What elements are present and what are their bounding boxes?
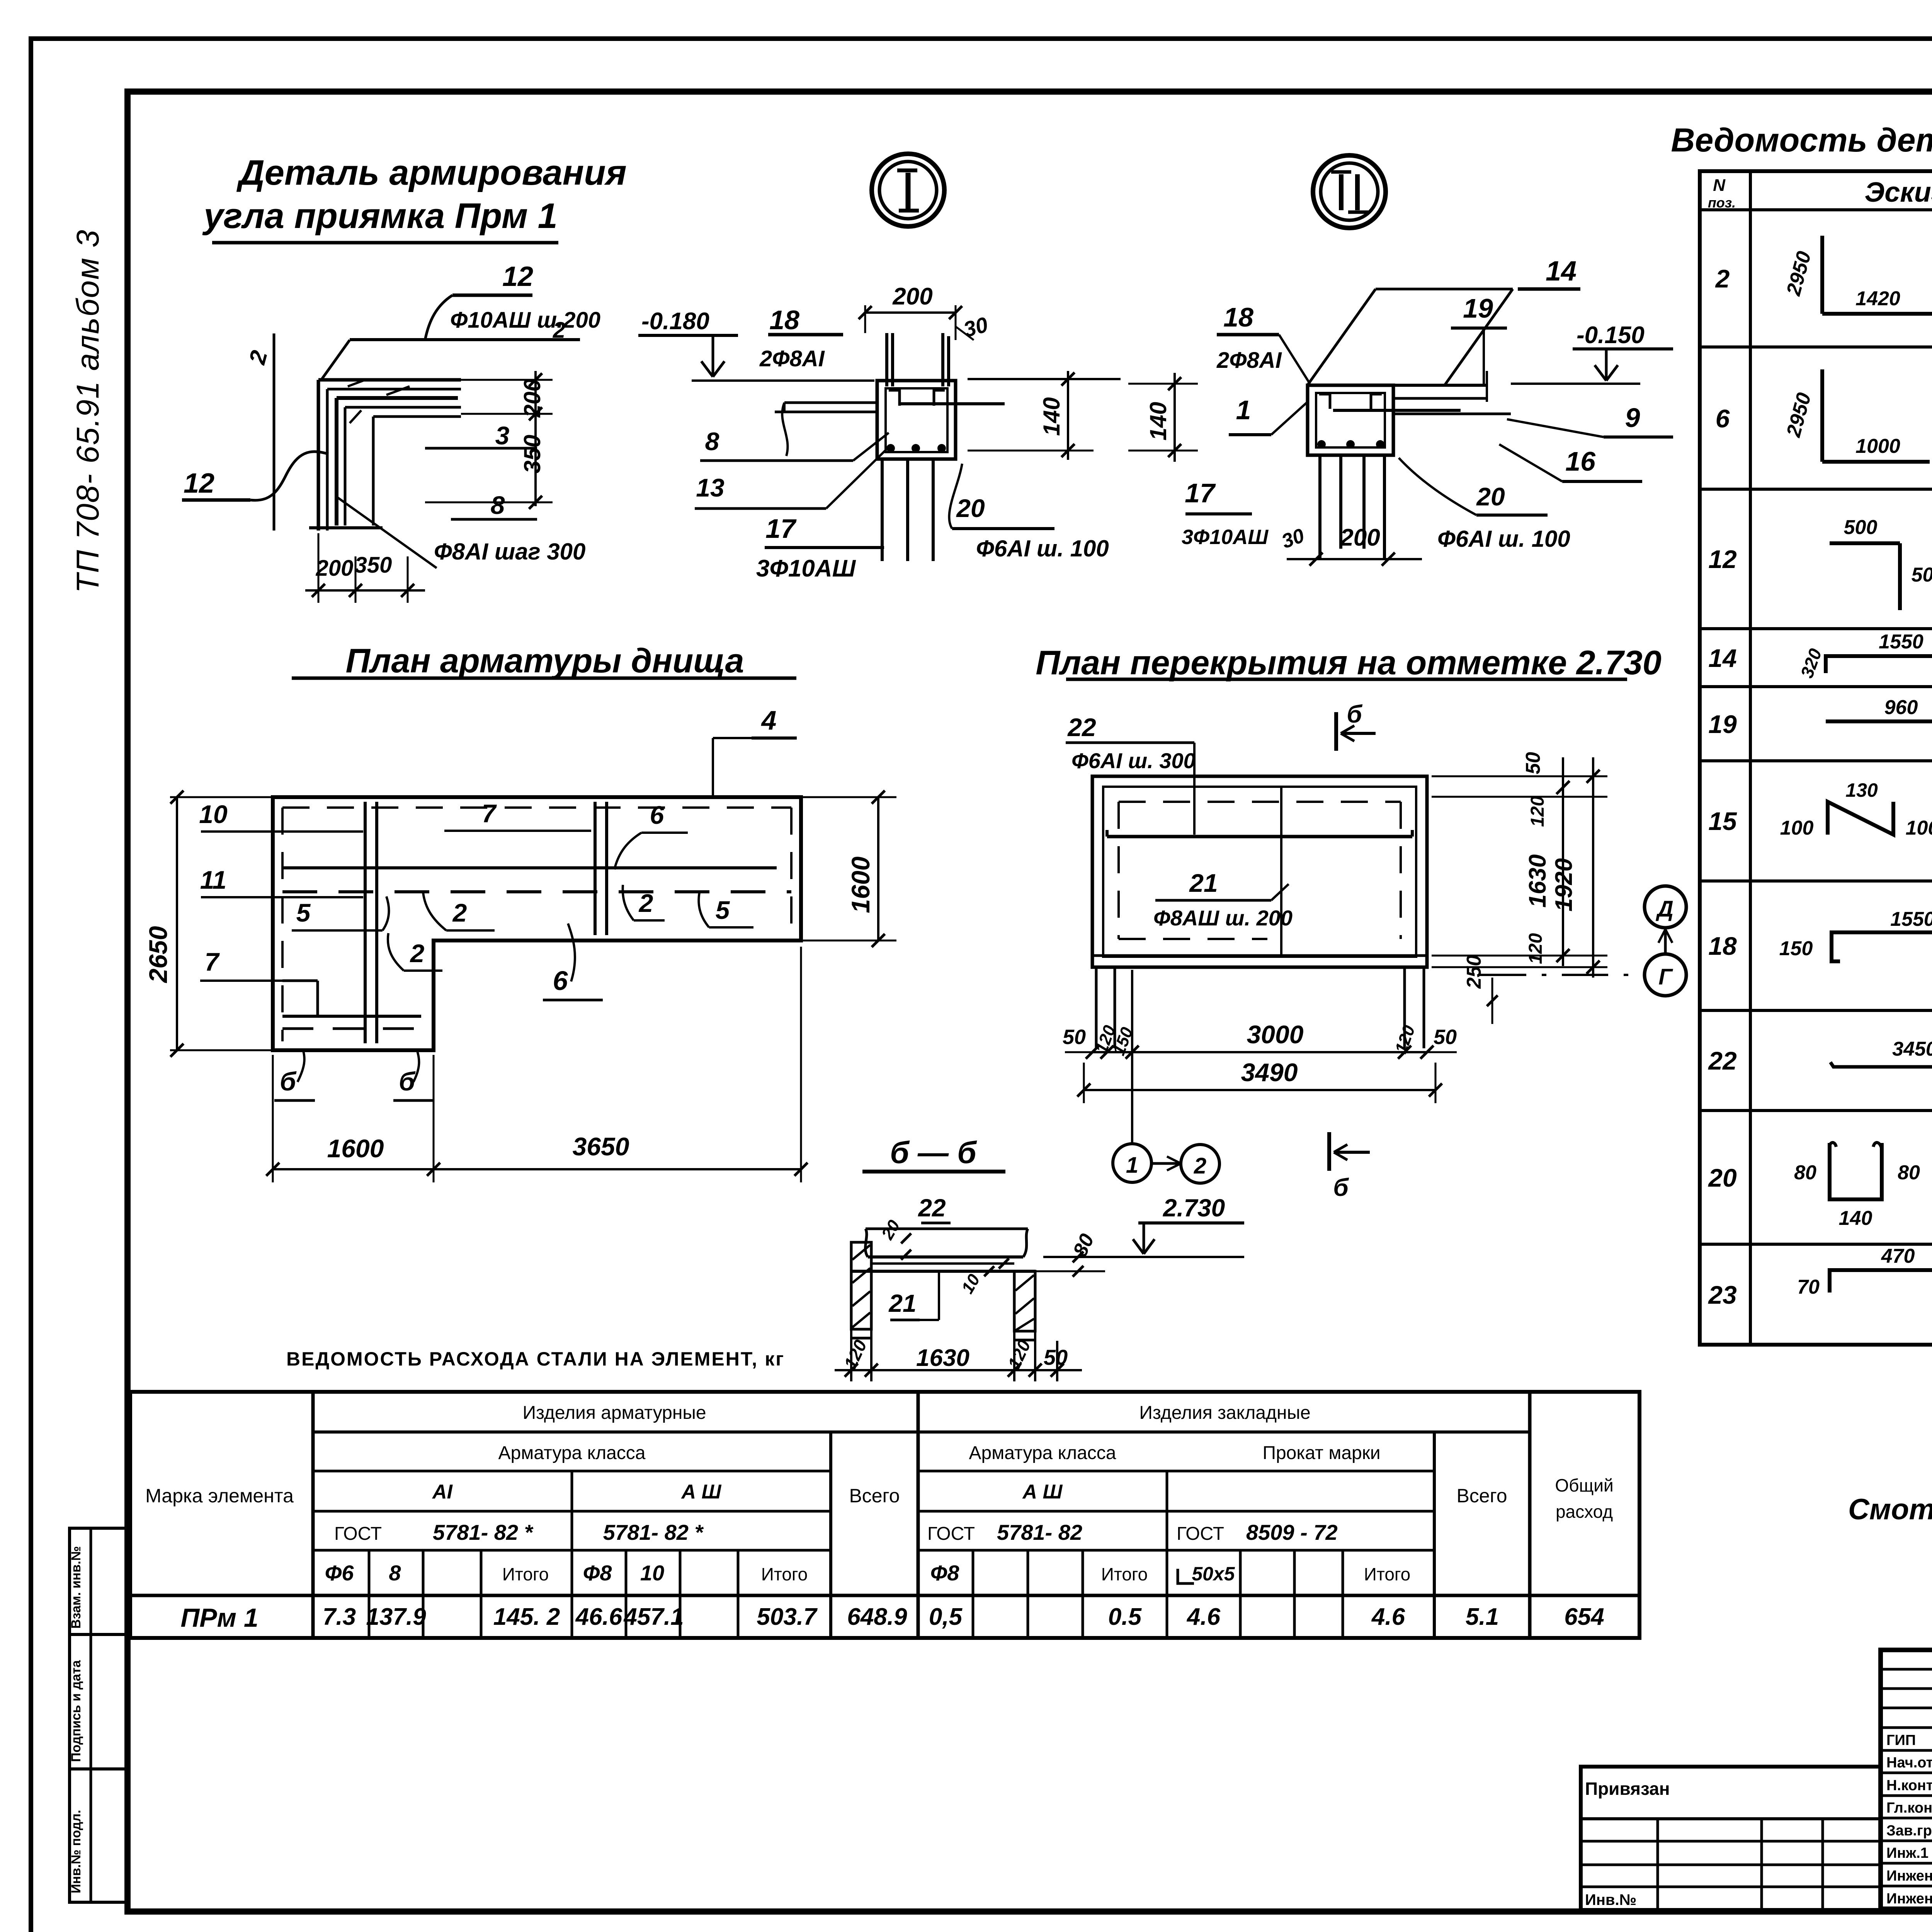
svg-text:1630: 1630 bbox=[916, 1345, 969, 1371]
detail-1 wall foot line bbox=[309, 526, 383, 529]
svg-text:N: N bbox=[1713, 176, 1726, 195]
detail-II leader squiggle 20 bbox=[1399, 458, 1476, 515]
svg-text:Итого: Итого bbox=[502, 1564, 549, 1584]
svg-text:4.6: 4.6 bbox=[1186, 1604, 1221, 1630]
svg-text:9: 9 bbox=[1625, 403, 1640, 433]
leader curve 12 left bbox=[250, 452, 328, 500]
svg-text:15: 15 bbox=[1708, 807, 1737, 835]
svg-text:б: б bbox=[1333, 1173, 1349, 1201]
plan-2 right dims bbox=[1432, 776, 1607, 777]
svg-text:10: 10 bbox=[640, 1561, 664, 1585]
svg-text:654: 654 bbox=[1564, 1604, 1604, 1630]
sketch table grid bbox=[1700, 171, 1932, 1345]
svg-text:13: 13 bbox=[696, 473, 724, 502]
b-b right wall hatched bbox=[1014, 1271, 1035, 1331]
svg-text:137.9: 137.9 bbox=[366, 1604, 426, 1630]
svg-text:140: 140 bbox=[1145, 402, 1171, 440]
b-b slab top bbox=[866, 1228, 1028, 1230]
svg-text:б — б: б — б bbox=[890, 1135, 977, 1170]
sketch row 6 bbox=[1820, 369, 1824, 462]
b-b break line right bbox=[1023, 1229, 1028, 1257]
svg-text:ПРм 1: ПРм 1 bbox=[180, 1603, 258, 1633]
plan-2 node circle Г bbox=[1645, 954, 1686, 996]
svg-text:3490: 3490 bbox=[1241, 1058, 1298, 1087]
svg-text:3Ф10АШ: 3Ф10АШ bbox=[756, 555, 856, 582]
svg-text:46.6: 46.6 bbox=[575, 1604, 622, 1630]
b-b underline bbox=[862, 1170, 1005, 1173]
detail-I column box bbox=[877, 381, 956, 459]
svg-text:2650: 2650 bbox=[144, 926, 172, 983]
svg-text:ВЕДОМОСТЬ РАСХОДА СТАЛИ НА ЭЛЕ: ВЕДОМОСТЬ РАСХОДА СТАЛИ НА ЭЛЕМЕНТ, кг bbox=[286, 1348, 785, 1370]
svg-text:12: 12 bbox=[184, 468, 214, 499]
svg-text:Ф6: Ф6 bbox=[325, 1561, 354, 1585]
sketch row 20 bbox=[1830, 1143, 1882, 1199]
svg-text:А Ш: А Ш bbox=[1022, 1481, 1063, 1503]
plan-2 axis circle 2 bbox=[1181, 1145, 1219, 1183]
svg-text:Инв.№ подл.: Инв.№ подл. bbox=[69, 1810, 83, 1893]
svg-text:Инв.№: Инв.№ bbox=[1585, 1891, 1636, 1908]
svg-text:350: 350 bbox=[519, 435, 545, 473]
svg-text:6: 6 bbox=[1716, 404, 1730, 433]
title block outer bbox=[1881, 1650, 1932, 1909]
svg-text:150: 150 bbox=[1779, 937, 1813, 960]
svg-text:2Ф8АІ: 2Ф8АІ bbox=[1216, 348, 1282, 373]
privyazan box bbox=[1581, 1767, 1881, 1910]
plan-2 title underline bbox=[1066, 678, 1627, 681]
detail-I slab step left of box bbox=[784, 401, 877, 404]
section circle II bbox=[1313, 155, 1386, 228]
detail-1 wall corner outline bbox=[318, 378, 461, 382]
sketch row 2 bbox=[1820, 236, 1824, 314]
svg-text:145. 2: 145. 2 bbox=[493, 1604, 560, 1630]
svg-text:План перекрытия на отметке 2: План перекрытия на отметке 2.730 bbox=[1036, 643, 1662, 682]
detail-1 right dim 200/350 bbox=[534, 371, 537, 506]
svg-text:ГОСТ: ГОСТ bbox=[927, 1524, 975, 1544]
plan-2 axis dash-dot to Г bbox=[1480, 974, 1645, 976]
svg-text:100: 100 bbox=[1780, 817, 1814, 839]
svg-text:23: 23 bbox=[1708, 1281, 1736, 1309]
svg-text:3: 3 bbox=[495, 421, 510, 450]
left margin stamp boxes bbox=[70, 1528, 128, 1634]
svg-text:1550: 1550 bbox=[1879, 631, 1923, 653]
detail-II stirrup hooks bbox=[1319, 394, 1330, 409]
b-b slab inner line bbox=[871, 1262, 1014, 1265]
svg-text:-0.180: -0.180 bbox=[641, 308, 709, 335]
detail-I right dim 140 bbox=[968, 378, 1121, 380]
svg-text:б: б bbox=[1347, 700, 1363, 728]
svg-text:Всего: Всего bbox=[1456, 1485, 1507, 1507]
svg-text:6: 6 bbox=[650, 801, 665, 829]
svg-text:Инж.1 кат: Инж.1 кат bbox=[1886, 1845, 1932, 1861]
svg-text:План арматуры днища: План арматуры днища bbox=[345, 641, 744, 680]
svg-text:12: 12 bbox=[1708, 545, 1737, 573]
svg-text:ГИП: ГИП bbox=[1886, 1732, 1916, 1748]
plan-1 vertical bar pair A bbox=[364, 802, 367, 1043]
svg-text:расход: расход bbox=[1556, 1502, 1613, 1522]
svg-text:Н.контр.: Н.контр. bbox=[1886, 1777, 1932, 1794]
svg-text:Эскиз: Эскиз bbox=[1864, 177, 1932, 208]
svg-text:50: 50 bbox=[1434, 1026, 1457, 1049]
detail-II left dim 140 bbox=[1173, 373, 1176, 462]
svg-text:960: 960 bbox=[1884, 696, 1918, 719]
svg-text:1000: 1000 bbox=[1855, 435, 1900, 457]
svg-text:250: 250 bbox=[1463, 955, 1485, 989]
svg-text:б: б bbox=[280, 1067, 297, 1096]
svg-text:200: 200 bbox=[1340, 524, 1380, 551]
plan-1 dashed bar line bbox=[282, 890, 791, 893]
svg-text:21: 21 bbox=[888, 1289, 916, 1317]
plan-2 section marker б bottom bbox=[1327, 1132, 1331, 1171]
svg-text:0.5: 0.5 bbox=[1108, 1604, 1142, 1630]
svg-text:140: 140 bbox=[1839, 1207, 1872, 1230]
plan-2 node circle Д bbox=[1645, 886, 1686, 928]
plan-1 outline bbox=[273, 797, 801, 1050]
detail-I bars below bbox=[881, 459, 884, 561]
svg-text:ГОСТ: ГОСТ bbox=[1177, 1524, 1224, 1544]
svg-text:50: 50 bbox=[1044, 1345, 1068, 1369]
svg-text:3Ф10АШ: 3Ф10АШ bbox=[1182, 526, 1269, 549]
svg-text:470: 470 bbox=[1881, 1245, 1915, 1267]
svg-text:0,5: 0,5 bbox=[929, 1604, 963, 1630]
svg-text:3450: 3450 bbox=[1892, 1038, 1932, 1060]
svg-text:648.9: 648.9 bbox=[847, 1604, 907, 1630]
svg-text:Нач.отд: Нач.отд bbox=[1886, 1755, 1932, 1771]
plan-1 title underline bbox=[292, 677, 796, 680]
svg-text:2: 2 bbox=[1194, 1153, 1206, 1179]
detail-II parallelogram top bbox=[1376, 288, 1513, 291]
b-b wall foot tick left bbox=[851, 1337, 871, 1340]
svg-text:1: 1 bbox=[1126, 1153, 1138, 1178]
svg-text:Всего: Всего bbox=[849, 1485, 900, 1507]
svg-text:5781- 82: 5781- 82 bbox=[997, 1520, 1082, 1544]
svg-text:А Ш: А Ш bbox=[681, 1481, 722, 1503]
detail-1 hatch marks bbox=[348, 381, 363, 386]
svg-text:8: 8 bbox=[705, 427, 719, 456]
svg-text:140: 140 bbox=[1039, 397, 1065, 436]
sketch row 19 bbox=[1826, 719, 1932, 723]
svg-text:Деталь армирования: Деталь армирования bbox=[236, 153, 626, 192]
svg-text:Ф8АІ шаг 300: Ф8АІ шаг 300 bbox=[434, 539, 585, 565]
svg-text:500: 500 bbox=[1844, 516, 1878, 539]
level line to detail-I bbox=[692, 379, 874, 382]
b-b bottom dims bbox=[850, 1329, 852, 1381]
detail-I leader squiggle 20 bbox=[949, 464, 962, 529]
svg-text:Смотреть совместно с лис: Смотреть совместно с листом 36 bbox=[1848, 1493, 1932, 1526]
detail-1 leader 2 line bbox=[321, 340, 350, 381]
svg-text:4: 4 bbox=[761, 705, 777, 735]
plan-2 slab outline bbox=[1092, 776, 1427, 967]
svg-text:Инженер: Инженер bbox=[1886, 1891, 1932, 1907]
detail-I stirrup hooks bbox=[889, 390, 900, 406]
svg-text:2Ф8АІ: 2Ф8АІ bbox=[759, 346, 825, 371]
plan-2 axis circle 1 bbox=[1113, 1144, 1151, 1182]
detail-1 diagonal leader bbox=[336, 497, 437, 568]
svg-text:-0.150: -0.150 bbox=[1577, 322, 1645, 349]
detail-II horizontal bar bbox=[1333, 409, 1461, 412]
detail-1 axis line 2 bbox=[273, 333, 276, 531]
svg-text:22: 22 bbox=[1708, 1046, 1737, 1075]
svg-text:18: 18 bbox=[1223, 302, 1253, 332]
svg-text:2: 2 bbox=[638, 889, 653, 917]
svg-text:Взам. инв.№: Взам. инв.№ bbox=[69, 1546, 83, 1629]
svg-text:20: 20 bbox=[1708, 1163, 1737, 1192]
svg-text:2: 2 bbox=[410, 939, 425, 968]
svg-text:Прокат марки: Прокат марки bbox=[1262, 1443, 1380, 1463]
svg-text:20: 20 bbox=[956, 494, 985, 522]
b-b wall foot tick right bbox=[1014, 1339, 1035, 1342]
detail-I protruding bars bbox=[885, 333, 888, 386]
svg-text:ГОСТ: ГОСТ bbox=[334, 1524, 382, 1544]
svg-text:АІ: АІ bbox=[432, 1481, 453, 1503]
plan-1 bottom-left bars bbox=[282, 980, 318, 982]
svg-text:5: 5 bbox=[716, 896, 730, 924]
svg-text:угла приямка Прм 1: угла приямка Прм 1 bbox=[202, 196, 557, 236]
plan-1 dim 1600 right bbox=[877, 797, 879, 940]
plan-2 horizontal bar with hooks bbox=[1107, 835, 1412, 838]
svg-text:1920: 1920 bbox=[1551, 858, 1577, 912]
title block left rows bbox=[1881, 1668, 1932, 1671]
svg-text:4.6: 4.6 bbox=[1371, 1604, 1405, 1630]
svg-text:200: 200 bbox=[519, 379, 545, 418]
svg-text:Г: Г bbox=[1658, 964, 1673, 990]
svg-text:Д: Д bbox=[1655, 896, 1673, 922]
section circle I bbox=[872, 154, 944, 226]
detail-II level line bbox=[1511, 383, 1640, 385]
plan-1 bottom dim line bbox=[273, 1168, 801, 1170]
svg-text:11: 11 bbox=[200, 866, 227, 894]
svg-text:200: 200 bbox=[892, 283, 932, 310]
svg-text:Ф6АІ ш. 100: Ф6АІ ш. 100 bbox=[1437, 526, 1570, 552]
svg-text:Арматура класса: Арматура класса bbox=[498, 1443, 646, 1463]
svg-text:457.1: 457.1 bbox=[623, 1604, 684, 1630]
svg-text:20: 20 bbox=[1476, 482, 1505, 511]
svg-text:2.730: 2.730 bbox=[1163, 1194, 1225, 1222]
svg-text:1550: 1550 bbox=[1890, 908, 1932, 930]
svg-text:Ф8АШ ш. 200: Ф8АШ ш. 200 bbox=[1153, 906, 1293, 930]
svg-text:8509 - 72: 8509 - 72 bbox=[1246, 1520, 1338, 1544]
plan-2 center vertical bar bbox=[1280, 787, 1282, 957]
svg-text:12: 12 bbox=[502, 261, 533, 292]
svg-text:8: 8 bbox=[389, 1561, 401, 1585]
svg-text:19: 19 bbox=[1463, 293, 1493, 323]
plan-2 bottom band line bbox=[1092, 954, 1427, 957]
sketch row 14 bbox=[1826, 656, 1932, 673]
svg-text:10: 10 bbox=[199, 800, 228, 828]
svg-text:80: 80 bbox=[1898, 1162, 1920, 1184]
svg-text:22: 22 bbox=[918, 1194, 946, 1222]
svg-text:5781- 82 *: 5781- 82 * bbox=[433, 1520, 534, 1544]
detail-II bar dots bbox=[1317, 440, 1326, 449]
svg-text:50: 50 bbox=[1063, 1026, 1086, 1049]
svg-text:18: 18 bbox=[1708, 932, 1737, 960]
b-b break line left bbox=[866, 1229, 868, 1257]
svg-text:5: 5 bbox=[296, 898, 311, 927]
steel table grid bbox=[130, 1392, 1639, 1638]
svg-text:1: 1 bbox=[1236, 395, 1251, 425]
sketch row 23 bbox=[1830, 1270, 1932, 1293]
svg-text:Ф6АІ ш. 100: Ф6АІ ш. 100 bbox=[976, 536, 1109, 561]
detail-II slab lines right bbox=[1393, 384, 1487, 387]
detail-I bar dots bbox=[886, 444, 895, 452]
svg-text:3650: 3650 bbox=[573, 1132, 629, 1161]
plan-2 dashed contour bbox=[1119, 801, 1401, 803]
svg-text:350: 350 bbox=[355, 553, 392, 578]
svg-text:503.7: 503.7 bbox=[757, 1604, 818, 1630]
plan-1 vertical bar pair B bbox=[594, 802, 597, 935]
svg-text:22: 22 bbox=[1067, 713, 1096, 742]
svg-text:21: 21 bbox=[1189, 869, 1218, 897]
svg-text:19: 19 bbox=[1708, 710, 1737, 738]
svg-text:8: 8 bbox=[491, 491, 505, 519]
sketch row 18 bbox=[1832, 932, 1932, 961]
plan-2 dim 3490 bbox=[1084, 1089, 1435, 1091]
svg-text:1420: 1420 bbox=[1855, 287, 1900, 310]
plan-1 horizontal bar bbox=[282, 866, 777, 869]
svg-text:7: 7 bbox=[482, 799, 497, 828]
svg-text:поз.: поз. bbox=[1708, 195, 1736, 211]
svg-text:16: 16 bbox=[1565, 446, 1596, 476]
svg-text:2: 2 bbox=[1715, 264, 1730, 293]
svg-text:50: 50 bbox=[1522, 752, 1544, 774]
svg-text:Инженер: Инженер bbox=[1886, 1868, 1932, 1884]
svg-text:Зав.гр.: Зав.гр. bbox=[1886, 1823, 1932, 1839]
svg-text:Подпись и дата: Подпись и дата bbox=[69, 1660, 83, 1762]
svg-text:130: 130 bbox=[1845, 779, 1878, 801]
svg-text:50х5: 50х5 bbox=[1192, 1563, 1235, 1585]
svg-text:7.3: 7.3 bbox=[323, 1604, 356, 1630]
svg-text:1600: 1600 bbox=[846, 856, 875, 913]
b-b slab bbox=[868, 1255, 1023, 1259]
svg-text:1630: 1630 bbox=[1524, 854, 1551, 908]
svg-text:Арматура класса: Арматура класса bbox=[969, 1443, 1116, 1463]
svg-text:Ф8: Ф8 bbox=[930, 1561, 960, 1585]
svg-text:18: 18 bbox=[769, 305, 799, 335]
svg-text:Итого: Итого bbox=[761, 1564, 808, 1584]
detail-II bars below bbox=[1318, 455, 1321, 558]
svg-text:Итого: Итого bbox=[1364, 1564, 1411, 1584]
plan-1 inner dashed contour bbox=[282, 806, 791, 809]
svg-text:120: 120 bbox=[1527, 796, 1548, 827]
svg-text:17: 17 bbox=[1185, 478, 1216, 508]
sketch row 12 bbox=[1830, 541, 1900, 545]
svg-text:2: 2 bbox=[452, 898, 467, 927]
svg-text:Изделия закладные: Изделия закладные bbox=[1139, 1403, 1310, 1423]
plan-2 axis-1 line bbox=[1131, 970, 1133, 1143]
plan-2 wall projections below bbox=[1095, 967, 1098, 1048]
svg-text:5781- 82 *: 5781- 82 * bbox=[603, 1520, 704, 1544]
detail-I horizontal bar bbox=[900, 402, 1005, 405]
svg-text:Ф10АШ ш.200: Ф10АШ ш.200 bbox=[450, 308, 600, 333]
svg-text:6: 6 bbox=[553, 966, 568, 996]
svg-text:500: 500 bbox=[1912, 564, 1932, 586]
svg-text:Изделия арматурные: Изделия арматурные bbox=[522, 1403, 706, 1423]
plan-1 dim 2650 left bbox=[176, 797, 178, 1050]
svg-text:70: 70 bbox=[1797, 1276, 1820, 1298]
svg-text:Марка элемента: Марка элемента bbox=[145, 1485, 294, 1507]
svg-text:Ф6АІ ш. 300: Ф6АІ ш. 300 bbox=[1071, 748, 1196, 773]
svg-text:200: 200 bbox=[316, 556, 354, 581]
svg-text:80: 80 bbox=[1794, 1162, 1816, 1184]
svg-text:Привязан: Привязан bbox=[1585, 1779, 1670, 1799]
svg-text:Гл.констр.: Гл.констр. bbox=[1886, 1800, 1932, 1816]
svg-text:14: 14 bbox=[1546, 256, 1577, 287]
svg-text:Ф8: Ф8 bbox=[583, 1561, 612, 1585]
sketch row 22 bbox=[1830, 1062, 1932, 1067]
detail title underline bbox=[212, 241, 558, 245]
sketch row 15 bbox=[1828, 802, 1893, 835]
svg-text:7: 7 bbox=[205, 947, 220, 976]
plan-2 dim 3000 bbox=[1092, 1051, 1427, 1053]
svg-text:5.1: 5.1 bbox=[1466, 1604, 1499, 1630]
svg-text:120: 120 bbox=[1526, 933, 1546, 964]
svg-text:14: 14 bbox=[1708, 644, 1736, 672]
svg-text:100: 100 bbox=[1906, 817, 1932, 839]
svg-text:ТП 708- 65.91 альбом 3: ТП 708- 65.91 альбом 3 bbox=[70, 230, 105, 593]
svg-text:3000: 3000 bbox=[1247, 1020, 1304, 1049]
svg-text:Итого: Итого bbox=[1101, 1564, 1148, 1584]
leader curve 12 top bbox=[425, 295, 452, 340]
svg-text:Общий: Общий bbox=[1555, 1475, 1613, 1495]
svg-text:1600: 1600 bbox=[327, 1134, 384, 1163]
svg-text:Ведомость деталей: Ведомость деталей bbox=[1671, 122, 1932, 159]
b-b left wall hatched bbox=[851, 1242, 871, 1329]
svg-text:17: 17 bbox=[765, 514, 797, 544]
b-b slab bottom bbox=[851, 1270, 1036, 1273]
detail-II column box bbox=[1308, 385, 1393, 455]
